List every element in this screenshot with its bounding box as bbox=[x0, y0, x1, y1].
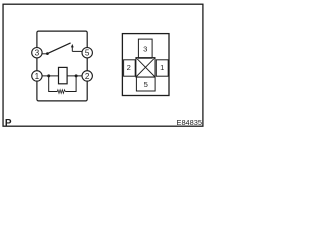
cavity pin 2 bbox=[124, 60, 136, 76]
svg-text:1: 1 bbox=[160, 63, 164, 72]
wire: coil wire between pin 1 and pin 2 bbox=[42, 75, 82, 77]
wire: resistor branch right bbox=[65, 76, 76, 92]
center cavity with X bbox=[136, 58, 155, 77]
pin 5 terminal circle bbox=[82, 48, 92, 58]
svg-text:3: 3 bbox=[143, 44, 147, 53]
cavity pin 3 bbox=[138, 39, 152, 58]
switch pivot junction bbox=[46, 52, 49, 55]
junction dot right bbox=[75, 74, 78, 77]
cavity pin 1 bbox=[156, 60, 168, 76]
resistor R1 (zigzag) bbox=[57, 90, 65, 94]
wire: contact lead to pin 5 bbox=[72, 50, 82, 52]
wire: resistor branch bbox=[49, 76, 58, 92]
switch actuation arrow bbox=[71, 44, 74, 52]
junction dot left bbox=[47, 74, 50, 77]
svg-text:2: 2 bbox=[85, 72, 90, 81]
relay case outline (wire loop connecting pins 3-5-2-1) bbox=[37, 31, 87, 101]
pin 1 terminal circle bbox=[32, 71, 42, 81]
switch blade (relay contact arm) bbox=[47, 43, 70, 54]
svg-text:5: 5 bbox=[85, 49, 90, 58]
pin 2 terminal circle bbox=[82, 71, 92, 81]
svg-text:1: 1 bbox=[35, 72, 40, 81]
relay coil L1 bbox=[59, 67, 68, 83]
cavity pin 5 bbox=[136, 77, 155, 91]
svg-text:P: P bbox=[5, 118, 12, 129]
connector pin layout outer box bbox=[122, 34, 169, 96]
svg-text:5: 5 bbox=[144, 80, 148, 89]
svg-text:E84835: E84835 bbox=[177, 118, 202, 127]
svg-text:3: 3 bbox=[35, 49, 40, 58]
wire: switch lead from pin 3 bbox=[42, 53, 47, 55]
pin 3 terminal circle bbox=[32, 48, 42, 58]
svg-text:2: 2 bbox=[127, 63, 131, 72]
